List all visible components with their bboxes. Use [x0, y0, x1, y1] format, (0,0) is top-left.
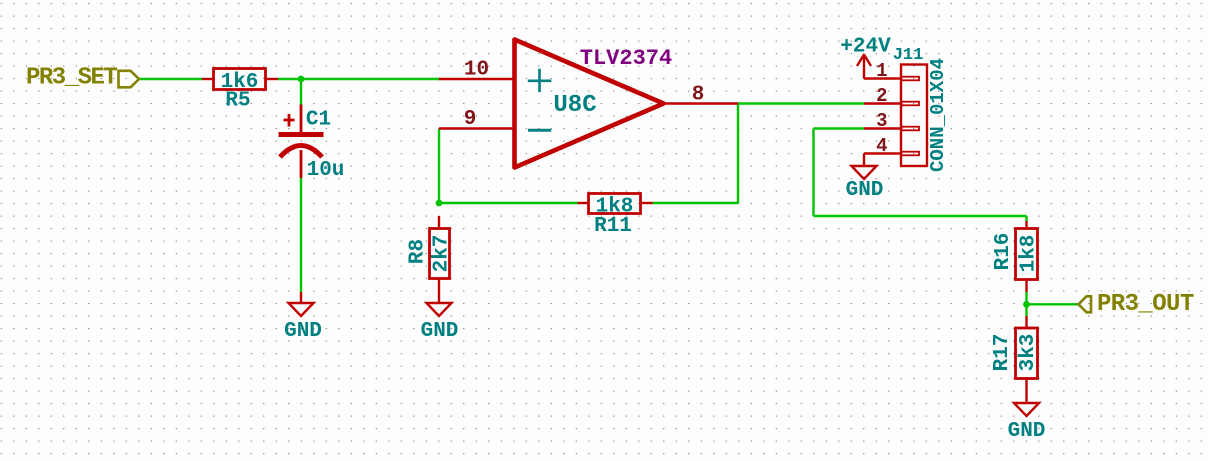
- wire node to PR3_OUT label: [1027, 303, 1079, 305]
- pin 10: [439, 78, 514, 80]
- wire input label to R5: [139, 78, 202, 80]
- svg-text:3: 3: [876, 110, 887, 132]
- pin 8: [664, 102, 739, 104]
- wire C1 bottom to ground: [300, 178, 302, 292]
- svg-text:10u: 10u: [307, 159, 345, 182]
- svg-text:R11: R11: [594, 215, 632, 238]
- svg-text:1: 1: [876, 60, 887, 82]
- svg-text:TLV2374: TLV2374: [580, 46, 672, 71]
- svg-text:3k3: 3k3: [1017, 334, 1040, 372]
- wire output branch vertical: [737, 104, 739, 204]
- capacitor C1: [280, 105, 322, 179]
- wire down from pin 3: [812, 129, 814, 217]
- svg-text:CONN_01X04: CONN_01X04: [927, 58, 949, 172]
- ground (below R8): [427, 292, 452, 316]
- power +24V: [857, 55, 871, 79]
- svg-text:GND: GND: [1008, 420, 1046, 443]
- wire R16 bottom to node: [1025, 292, 1027, 304]
- connector J11: [864, 65, 927, 167]
- wire pin 9 down to feedback node: [438, 129, 440, 203]
- wire into R16 top: [1025, 216, 1027, 221]
- wire op-amp output to connector pin 2: [738, 102, 864, 104]
- resistor R17: [1016, 316, 1038, 403]
- resistor R8: [430, 216, 450, 292]
- wire R5 to op-amp pin 10: [278, 78, 440, 80]
- wire across to R16: [814, 215, 1027, 217]
- junction node C (R16 / R17 / PR3_OUT): [1023, 301, 1030, 308]
- svg-text:8: 8: [692, 84, 705, 107]
- svg-text:R8: R8: [407, 239, 430, 264]
- ground (below C1): [289, 292, 314, 316]
- svg-text:R5: R5: [225, 90, 250, 113]
- svg-text:1k8: 1k8: [1018, 235, 1041, 273]
- ground (below R17): [1014, 403, 1039, 416]
- resistor R11: [578, 194, 653, 214]
- junction node A (R5 / C1): [298, 76, 305, 83]
- svg-text:J11: J11: [893, 46, 924, 65]
- svg-text:U8C: U8C: [553, 92, 596, 119]
- wire node to R17 top: [1025, 304, 1027, 316]
- op-amp minus input marker: [528, 129, 551, 132]
- resistor R16: [1016, 221, 1038, 292]
- svg-text:+24V: +24V: [840, 36, 891, 59]
- svg-text:2: 2: [876, 85, 887, 107]
- svg-text:GND: GND: [421, 320, 459, 343]
- op-amp plus input marker: [528, 69, 552, 92]
- hierarchical label PR3_OUT: [1079, 296, 1092, 312]
- svg-text:10: 10: [464, 59, 489, 82]
- svg-text:GND: GND: [846, 179, 884, 202]
- pin 9: [439, 127, 514, 129]
- junction node B (feedback / R8): [436, 200, 443, 207]
- svg-text:C1: C1: [306, 109, 331, 132]
- wire R11 to output branch: [653, 202, 739, 204]
- svg-text:GND: GND: [284, 320, 322, 343]
- svg-text:R17: R17: [991, 334, 1014, 372]
- svg-text:2k7: 2k7: [431, 235, 454, 273]
- wire connector pin 3 to left: [814, 127, 865, 129]
- wire junction down to C1: [300, 79, 302, 105]
- svg-text:4: 4: [876, 135, 887, 157]
- hierarchical label PR3_SET: [119, 71, 140, 88]
- svg-text:R16: R16: [992, 233, 1015, 271]
- op-amp U8C: [515, 40, 664, 168]
- wire: [139, 79, 1079, 316]
- ground (below connector pin 4): [852, 154, 877, 180]
- svg-text:PR3_SET: PR3_SET: [26, 65, 117, 92]
- svg-text:9: 9: [464, 108, 477, 131]
- wire feedback node to R11: [439, 202, 578, 204]
- resistor R5: [202, 69, 278, 90]
- svg-text:PR3_OUT: PR3_OUT: [1097, 291, 1194, 318]
